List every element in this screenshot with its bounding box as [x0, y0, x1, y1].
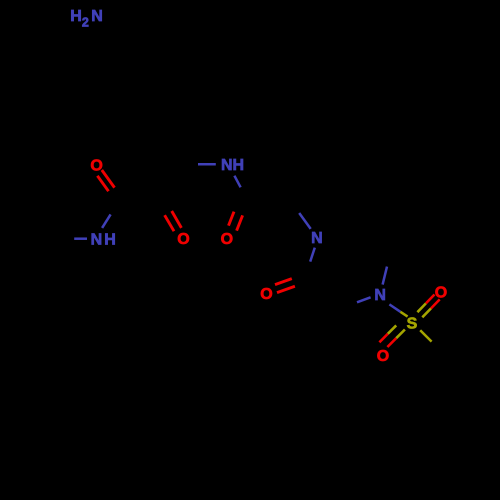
- wire: bond N-S, yellow half: [400, 312, 407, 317]
- wire: bond NH(amide L) to CH3, blue half: [74, 237, 87, 240]
- svg-text:N: N: [91, 8, 103, 25]
- wire: bond N(sulfonamide) to CH3 up, blue half: [383, 267, 387, 285]
- capacitor C=O keto: red double bond inner line: [165, 215, 174, 231]
- svg-text:O: O: [435, 285, 447, 302]
- svg-text:O: O: [177, 231, 189, 248]
- wire: bond N(amide R) to C alpha2, blue half: [299, 213, 311, 229]
- svg-text:H: H: [104, 231, 116, 248]
- wire: bond N(amide R) to C7 carbonyl, blue half: [310, 248, 315, 262]
- capacitor C7=O amide R: red double bond main line: [277, 286, 295, 292]
- capacitor C=O keto: red double bond main line: [172, 211, 182, 228]
- svg-text:NH: NH: [221, 157, 244, 174]
- capacitor C7=O amide R: red double bond inner line: [275, 279, 292, 285]
- resistor S=O upper: inner line yellow half: [417, 303, 426, 312]
- svg-text:N: N: [311, 230, 323, 247]
- wire: bond N-S, blue half: [389, 304, 400, 311]
- svg-text:H: H: [70, 8, 82, 25]
- wire: bond NH(formamide) to C4 alpha, blue half: [198, 163, 216, 166]
- svg-text:2: 2: [82, 16, 89, 30]
- resistor S=O lower: main line yellow half: [396, 330, 405, 339]
- wire: bond N(sulfonamide) to CH2, blue half: [357, 297, 371, 302]
- svg-text:O: O: [260, 286, 272, 303]
- resistor S=O upper: main line yellow half: [422, 308, 431, 317]
- wire: bond S to phenyl, yellow half: [420, 330, 431, 341]
- wire: bond NH(amide L) to C2, blue half: [102, 214, 111, 228]
- capacitor C=O formyl: red double bond main line: [237, 215, 243, 230]
- wire: bond NH(formamide) to CHO, blue half: [234, 176, 240, 188]
- svg-text:O: O: [221, 231, 233, 248]
- capacitor C=O left amide: red double bond main line: [102, 170, 115, 188]
- resistor S=O lower: main line red half: [387, 338, 396, 347]
- capacitor C=O formyl: red double bond inner line: [229, 212, 235, 226]
- resistor S=O lower: inner line red half: [379, 334, 387, 343]
- svg-text:S: S: [407, 316, 418, 333]
- svg-text:O: O: [377, 348, 389, 365]
- resistor S=O upper: main line red half: [431, 299, 440, 308]
- svg-text:N: N: [374, 287, 386, 304]
- resistor S=O lower: inner line yellow half: [388, 325, 396, 333]
- svg-text:N: N: [91, 231, 103, 248]
- capacitor C=O left amide: red double bond inner line: [97, 176, 108, 191]
- svg-text:O: O: [90, 158, 102, 175]
- resistor S=O upper: inner line red half: [426, 295, 435, 304]
- node H2N amine label: [70, 8, 103, 30]
